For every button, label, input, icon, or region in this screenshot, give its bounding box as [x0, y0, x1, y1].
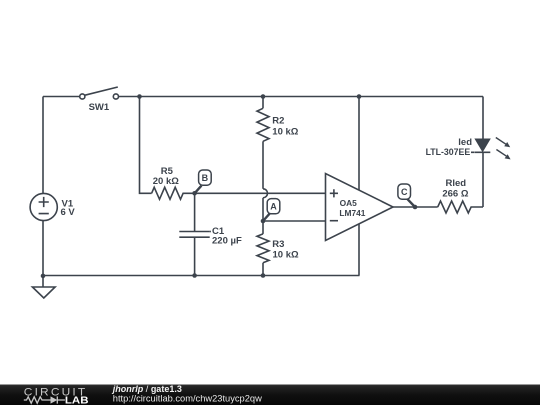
- svg-text:A: A: [270, 202, 277, 212]
- wire V1 bottom: [42, 221, 44, 276]
- resistor R3: [257, 234, 269, 263]
- switch SW1: [80, 87, 119, 99]
- wire C1 bottom: [194, 237, 196, 275]
- op-amp V- stub: [358, 224, 360, 276]
- resistor Rled: [438, 201, 483, 213]
- svg-text:B: B: [202, 173, 209, 183]
- footer logo diode triangle: [51, 396, 58, 403]
- svg-text:266 Ω: 266 Ω: [442, 188, 468, 199]
- svg-text:10 kΩ: 10 kΩ: [273, 249, 299, 260]
- svg-text:OA5: OA5: [340, 198, 358, 208]
- svg-text:LAB: LAB: [65, 396, 89, 405]
- wire LED branch: [482, 97, 484, 208]
- op-amp V+ stub: [358, 97, 360, 191]
- wire top rail left segment: [43, 96, 80, 98]
- junction R3 bottom on ground rail: [261, 273, 266, 278]
- node B junction: [192, 191, 197, 196]
- wire B to op-amp + input: [195, 192, 326, 194]
- ground: [32, 276, 55, 299]
- svg-text:R2: R2: [272, 116, 284, 127]
- wire R2 top lead: [262, 97, 264, 109]
- svg-text:http://circuitlab.com/chw23tuy: http://circuitlab.com/chw23tuycp2qw: [113, 393, 263, 403]
- wire bottom rail: [43, 275, 360, 277]
- svg-text:10 kΩ: 10 kΩ: [272, 127, 298, 138]
- LED arrow shaft 1: [496, 138, 506, 145]
- junction C1 bottom on ground rail: [192, 273, 197, 278]
- flag A box: [263, 213, 270, 221]
- wire node A to R3: [262, 221, 264, 234]
- LED arrowhead 2: [505, 154, 511, 159]
- svg-text:220 µF: 220 µF: [212, 236, 242, 247]
- LED arrow shaft 2: [496, 150, 506, 157]
- junction after SW1 on top rail: [137, 94, 142, 99]
- wire R3 bottom: [262, 263, 264, 276]
- junction R2 top on top rail: [261, 94, 266, 99]
- wire node A to - input: [263, 220, 326, 222]
- wire op-amp output: [393, 206, 438, 208]
- svg-text:R3: R3: [272, 239, 284, 250]
- resistor R2: [257, 108, 269, 141]
- LED arrowhead 1: [504, 142, 510, 147]
- wire hop to node A: [262, 198, 264, 221]
- capacitor C1: [179, 232, 211, 238]
- wire hop over + input: [263, 189, 268, 198]
- wire x139 vertical: [140, 97, 152, 194]
- junction op-amp V+ on top rail: [357, 94, 362, 99]
- svg-text:R5: R5: [161, 166, 174, 177]
- voltage source V1: [30, 193, 57, 220]
- LED led triangle: [476, 139, 490, 151]
- svg-text:20 kΩ: 20 kΩ: [153, 176, 179, 187]
- LED led cathode bar: [471, 151, 490, 153]
- svg-text:LTL-307EE: LTL-307EE: [426, 147, 471, 158]
- node A junction: [261, 219, 266, 224]
- wire R2 bottom to hop: [262, 141, 264, 189]
- svg-text:6 V: 6 V: [61, 207, 76, 218]
- node C junction: [413, 205, 418, 210]
- op-amp + symbol: [330, 189, 338, 197]
- svg-text:C: C: [401, 187, 408, 197]
- wire left branch V1 top: [42, 97, 44, 194]
- footer bar: [0, 385, 540, 405]
- resistor R5: [152, 187, 195, 199]
- svg-text:SW1: SW1: [89, 102, 110, 113]
- footer logo wire resistor diode: [24, 396, 65, 403]
- flag C box: [407, 198, 415, 207]
- svg-text:LM741: LM741: [339, 208, 365, 218]
- junction V1 bottom at ground: [41, 274, 46, 279]
- wire B down to C1: [194, 193, 196, 231]
- op-amp - symbol: [330, 220, 338, 222]
- op-amp OA5 triangle: [326, 174, 394, 241]
- wire top rail right segment: [118, 96, 483, 98]
- flag B box: [195, 186, 202, 194]
